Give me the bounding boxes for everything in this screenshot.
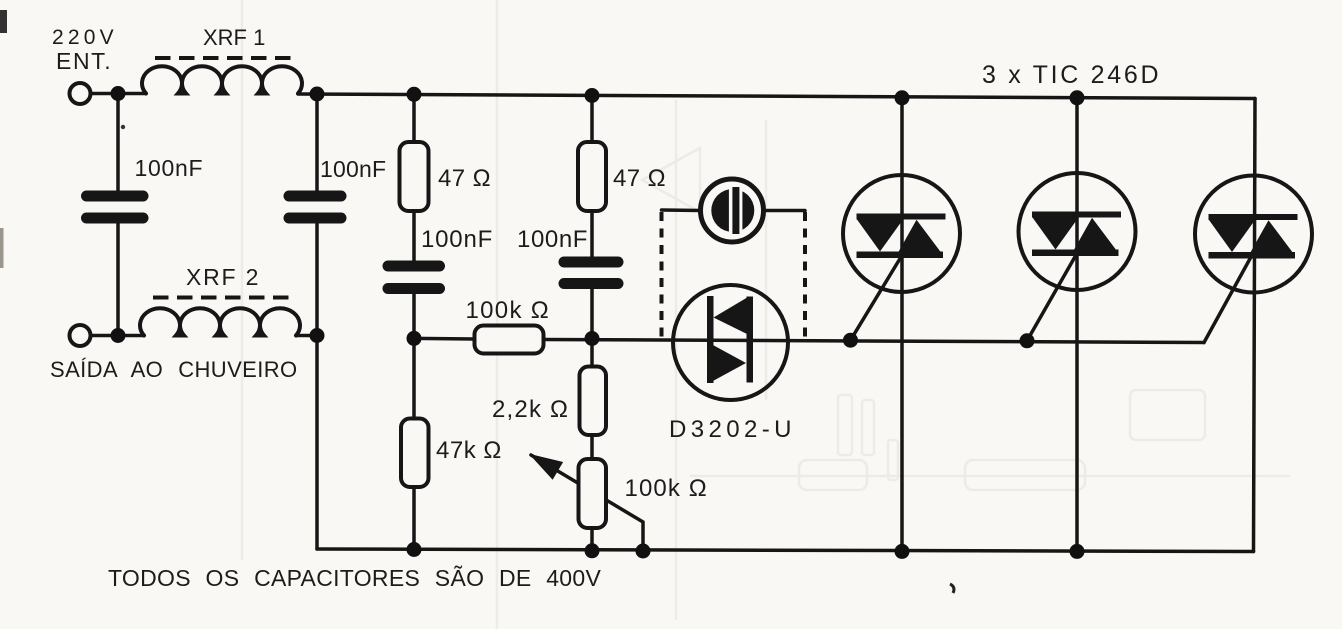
wire: gate bus right bbox=[544, 340, 1205, 343]
svg-text:100nF: 100nF bbox=[421, 226, 493, 253]
svg-text:220V: 220V bbox=[52, 26, 118, 49]
svg-text:47 Ω: 47 Ω bbox=[438, 165, 491, 192]
node: gate bus x414 bbox=[407, 331, 422, 346]
node: bottom bus x592 bbox=[585, 543, 600, 558]
svg-text:47 Ω: 47 Ω bbox=[613, 165, 666, 192]
capacitor C2 100nF (x=317) bbox=[289, 196, 341, 218]
wire: gate bus rise to triac 3 bbox=[1204, 256, 1252, 343]
wire: output lead bbox=[91, 334, 145, 338]
dashed lines bbox=[153, 58, 805, 340]
edge mark top-left bbox=[0, 10, 7, 33]
svg-text:100k Ω: 100k Ω bbox=[625, 475, 708, 502]
svg-text:SAÍDA AO CHUVEIRO: SAÍDA AO CHUVEIRO bbox=[50, 357, 298, 382]
edge mark mid-left bbox=[0, 228, 4, 268]
wire: input column upper bbox=[116, 94, 120, 191]
diac D1 bottom triangle bbox=[712, 345, 746, 382]
diac D1 circle bbox=[673, 285, 788, 400]
capacitor C3 100nF (x=414) bbox=[388, 266, 440, 289]
ink fleck bbox=[121, 125, 125, 129]
svg-text:100nF: 100nF bbox=[135, 155, 204, 181]
dashed box left side (lamp option) bbox=[660, 212, 664, 339]
wire: lamp left lead bbox=[662, 208, 702, 212]
svg-text:47k Ω: 47k Ω bbox=[436, 437, 502, 464]
diac D1 right bar bbox=[747, 297, 754, 383]
svg-text:100nF: 100nF bbox=[517, 226, 588, 253]
wire: triac 2 vertical bbox=[1075, 98, 1079, 552]
capacitor C4 100nF (x=592) bbox=[564, 262, 618, 284]
svg-text:3 x TIC 246D: 3 x TIC 246D bbox=[982, 61, 1161, 89]
wire: gate bus left bbox=[414, 337, 475, 341]
wire: left return vertical x=317 lower bbox=[315, 224, 319, 550]
node: top bus triac2 bbox=[1070, 90, 1085, 105]
dashed line over XRF2 bbox=[153, 296, 296, 300]
node: bottom bus wiper bbox=[636, 544, 651, 559]
node: gate bus triac2 bbox=[1020, 333, 1035, 348]
wire: input top lead bbox=[91, 92, 147, 96]
svg-text:100nF: 100nF bbox=[320, 156, 386, 182]
svg-text:TODOS OS CAPACITORES SÃO DE 40: TODOS OS CAPACITORES SÃO DE 400V bbox=[108, 565, 601, 591]
dashed line over XRF1 bbox=[155, 56, 298, 60]
diac D1 top triangle bbox=[714, 297, 749, 335]
wire: lamp right lead bbox=[764, 209, 806, 213]
node: xrf2 left bbox=[111, 328, 126, 343]
node: top bus x592 bbox=[585, 88, 600, 103]
triac Q2 bbox=[1019, 173, 1136, 290]
inductor XRF2 bbox=[140, 308, 300, 335]
node: gate bus x592 bbox=[585, 331, 600, 346]
wire: column 592 segments bbox=[590, 96, 594, 143]
node: top bus x317 bbox=[310, 87, 325, 102]
wire: input column lower bbox=[116, 224, 120, 336]
wire: triac 1 gate bbox=[851, 257, 902, 340]
stray mark bbox=[950, 584, 954, 593]
svg-text:XRF 1: XRF 1 bbox=[203, 25, 265, 50]
node: input top bbox=[111, 86, 126, 101]
node: bottom bus x414 bbox=[407, 542, 422, 557]
node: top bus x414 bbox=[407, 87, 422, 102]
node: bottom bus triac2 bbox=[1070, 544, 1085, 559]
svg-text:2,2k Ω: 2,2k Ω bbox=[492, 396, 569, 423]
neon lamp circle bbox=[701, 179, 764, 242]
wire: pot wiper bbox=[531, 455, 643, 551]
wire: bottom bus bbox=[317, 549, 1254, 552]
triac Q1 bbox=[843, 175, 960, 292]
dashed box right side (lamp option) bbox=[803, 212, 807, 340]
wire: right vertical (through triac 3) bbox=[1254, 99, 1256, 552]
svg-text:D3202-U: D3202-U bbox=[669, 416, 796, 443]
node: bottom bus triac1 bbox=[895, 544, 910, 559]
diac D1 left bar bbox=[707, 296, 714, 383]
potentiometer P1 arrowhead bbox=[531, 455, 562, 479]
node: xrf2 right bbox=[310, 328, 325, 343]
terminal: 220V input bbox=[70, 83, 91, 104]
potentiometer P1 100k body bbox=[579, 459, 607, 528]
triac Q3 bbox=[1195, 176, 1312, 293]
wire: top bus bbox=[298, 94, 1255, 99]
wire: xrf2 to x317 bbox=[296, 334, 317, 338]
resistor R2 47ohm bbox=[578, 142, 606, 211]
wire: triac 2 gate bbox=[1027, 255, 1076, 341]
wire: left return vertical x=317 upper bbox=[315, 94, 319, 191]
svg-text:ENT.: ENT. bbox=[56, 48, 112, 74]
svg-text:100k Ω: 100k Ω bbox=[466, 297, 550, 324]
capacitor C1 100nF (input) bbox=[87, 196, 144, 218]
terminal: output to shower bbox=[70, 325, 91, 346]
inductor XRF1 bbox=[142, 66, 302, 93]
resistor R3 100k (horizontal) bbox=[475, 326, 544, 354]
resistor R4 47k bbox=[401, 419, 429, 488]
resistor R1 47ohm bbox=[400, 142, 429, 211]
wire: column 414 segments bbox=[412, 94, 416, 142]
node: gate bus triac1 bbox=[843, 333, 858, 348]
ghost bleed-through marks (decorative) bbox=[242, 0, 1290, 629]
node: top bus triac1 bbox=[895, 90, 910, 105]
svg-text:XRF 2: XRF 2 bbox=[186, 264, 260, 290]
wire: triac 1 vertical bbox=[900, 98, 904, 552]
resistor R5 2.2k bbox=[580, 367, 607, 436]
